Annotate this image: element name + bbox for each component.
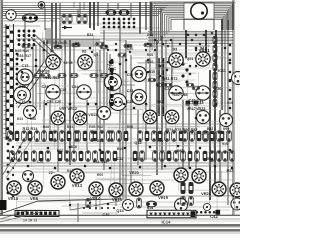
wire board-edge	[0, 215, 240, 233]
svg-text:R33: R33	[17, 117, 23, 121]
wire top-edge	[0, 2, 236, 4]
svg-text:R45 R10: R45 R10	[15, 49, 29, 53]
wire mesh	[8, 33, 230, 210]
svg-text:VR20: VR20	[129, 171, 139, 175]
svg-text:C26: C26	[127, 100, 134, 104]
resistor R2	[62, 15, 66, 24]
capacitor C5 cluster	[103, 10, 136, 29]
svg-text:VR24: VR24	[201, 191, 212, 196]
svg-text:R80 C48: R80 C48	[172, 93, 187, 97]
svg-text:R58: R58	[127, 125, 133, 129]
hole H1	[191, 3, 207, 19]
trimmer VR2	[78, 55, 92, 69]
trimmer VR25	[230, 183, 244, 197]
svg-text:94 98: 94 98	[63, 61, 72, 65]
svg-text:R40 R42: R40 R42	[89, 125, 103, 129]
svg-text:R56: R56	[57, 149, 64, 153]
capacitor C43	[137, 198, 142, 208]
svg-text:914: 914	[147, 206, 154, 210]
svg-text:C35: C35	[137, 157, 143, 161]
capacitor C21	[46, 85, 60, 99]
svg-text:C19: C19	[19, 100, 26, 104]
wire inner-box	[184, 19, 214, 30]
label microtext	[11, 33, 233, 161]
connector J2	[15, 211, 59, 217]
trimmer VR15	[109, 183, 123, 197]
transistor Q13	[23, 171, 34, 182]
svg-text:R19: R19	[117, 147, 124, 151]
label noise	[17, 41, 229, 177]
trimmer VR4	[196, 52, 210, 66]
svg-text:22··: 22··	[49, 171, 56, 175]
node dark-pads-r	[181, 62, 188, 83]
resistor bank right-column	[213, 36, 231, 109]
svg-text:R31: R31	[67, 125, 73, 129]
svg-text:VR21: VR21	[199, 48, 211, 53]
svg-text:Q14: Q14	[116, 209, 124, 213]
svg-text:R16 R17: R16 R17	[17, 54, 31, 58]
wire diag5	[0, 199, 120, 214]
svg-text:Q15: Q15	[147, 60, 154, 64]
svg-text:C25: C25	[55, 100, 62, 104]
svg-text:92: 92	[82, 48, 87, 53]
wire top-bundle	[2, 6, 168, 29]
wire vertical-bundles	[25, 0, 233, 215]
wire top-drops	[25, 2, 161, 52]
node A	[38, 2, 45, 9]
svg-text:R40: R40	[30, 117, 37, 121]
svg-text:R12 R14: R12 R14	[22, 127, 38, 131]
trimmer VR19	[174, 168, 188, 182]
capacitor C49 pads	[186, 101, 199, 106]
svg-text:C36: C36	[215, 87, 222, 91]
capacitor C2	[23, 14, 38, 22]
svg-text:C30: C30	[127, 47, 133, 51]
wire diag4	[31, 37, 59, 63]
svg-text:R21: R21	[87, 33, 94, 37]
resistor R8	[83, 15, 87, 24]
transistor Q11	[98, 107, 111, 120]
svg-text:R60: R60	[157, 139, 164, 143]
trimmer VR24	[212, 182, 226, 196]
capacitor C10	[110, 94, 127, 111]
svg-text:C28: C28	[37, 160, 43, 164]
trimmer VR8	[28, 181, 42, 195]
svg-text:R21 R25: R21 R25	[53, 41, 67, 45]
wire right-horizontals	[148, 32, 233, 44]
resistor bank top-mid	[22, 43, 152, 49]
trimmer VR14	[89, 182, 103, 196]
svg-text:R64 R66: R64 R66	[93, 160, 107, 164]
trimmer VR10	[7, 181, 21, 195]
svg-text:915: 915	[149, 70, 155, 74]
trimmer VR13	[70, 169, 84, 183]
svg-text:R82: R82	[177, 149, 184, 153]
svg-text:C32: C32	[117, 157, 124, 161]
node pad-column	[16, 53, 19, 101]
svg-text:R23: R23	[227, 169, 234, 173]
svg-text:R46 R52: R46 R52	[44, 76, 59, 80]
wire fine-verticals	[20, 36, 232, 200]
connector J1	[4, 24, 14, 140]
svg-text:R28: R28	[43, 125, 49, 129]
svg-text:VR8: VR8	[30, 196, 39, 201]
trimmer VR6	[51, 175, 65, 189]
svg-text:91: 91	[50, 48, 55, 53]
svg-text:C30: C30	[147, 33, 154, 37]
resistor bank R46-R52	[34, 74, 108, 78]
wire dark-pair-1	[159, 58, 164, 116]
wire fine-horizontals	[16, 45, 232, 174]
svg-text:C24: C24	[42, 85, 50, 89]
capacitor C33	[132, 90, 147, 105]
svg-text:VR19: VR19	[158, 195, 169, 200]
capacitor C22	[77, 85, 91, 99]
svg-text:R88: R88	[207, 157, 214, 161]
capacitor C26	[196, 86, 210, 100]
svg-text:VR13: VR13	[72, 183, 83, 188]
capacitor C16	[14, 87, 31, 104]
capacitor C9	[105, 74, 122, 91]
wire left-edge	[1, 0, 2, 215]
svg-text:IC11: IC11	[218, 69, 226, 73]
wire diag3	[34, 34, 62, 60]
svg-text:VR14: VR14	[90, 196, 101, 201]
svg-text:Q51 R72: Q51 R72	[162, 77, 177, 81]
wire guard-rings	[150, 2, 234, 52]
capacitor C44	[147, 201, 157, 207]
capacitor C31	[132, 67, 147, 82]
svg-text:C15: C15	[22, 64, 29, 68]
wire diag6	[0, 210, 30, 219]
wire diag2	[18, 40, 47, 108]
trimmer VR22	[165, 110, 179, 124]
svg-text:R10: R10	[43, 41, 50, 45]
svg-text:93: 93	[173, 46, 178, 51]
svg-text:R68: R68	[157, 100, 164, 104]
node pad-column-mid	[110, 60, 114, 106]
transistor Q20	[231, 198, 243, 210]
ic IC14	[147, 210, 196, 218]
svg-text:C37: C37	[165, 87, 172, 91]
resistor R4	[68, 15, 72, 24]
transistor Q21	[123, 200, 134, 211]
pad P1	[0, 200, 7, 210]
svg-text:Q21: Q21	[187, 57, 194, 61]
diode D1	[62, 26, 72, 30]
wire corner-bundle	[46, 28, 100, 46]
svg-text:919: 919	[222, 142, 228, 146]
resistor bank row2	[10, 151, 235, 162]
wire sparse-fills	[0, 2, 210, 222]
trimmer VR23	[192, 169, 206, 183]
svg-text:R90: R90	[223, 127, 229, 131]
capacitor C47	[203, 203, 210, 210]
svg-text:VR10: VR10	[8, 196, 19, 201]
wire thick-verticals	[186, 19, 222, 110]
node pad-grid	[18, 30, 36, 46]
transistor Q19	[232, 72, 245, 85]
svg-text:R74 R78 R80 R82: R74 R78 R80 R82	[166, 128, 197, 132]
wire diag1	[16, 40, 44, 104]
capacitor C15	[17, 69, 33, 85]
trimmer VR17	[143, 110, 157, 124]
svg-text:VR7 VR12: VR7 VR12	[59, 107, 77, 111]
svg-text:816: 816	[71, 145, 77, 149]
trimmer VR16	[129, 182, 143, 196]
svg-text:R44: R44	[97, 139, 104, 143]
svg-text:R7 VR12: R7 VR12	[83, 113, 98, 117]
svg-text:R30: R30	[11, 157, 18, 161]
wire diag8	[6, 136, 34, 178]
svg-text:C38 C43: C38 C43	[188, 101, 203, 105]
resistor bank row1	[8, 131, 232, 142]
resistor bank R72-R80	[148, 78, 200, 90]
svg-text:R50: R50	[97, 173, 103, 177]
wire hole-box	[184, 3, 214, 19]
svg-text:+CC: +CC	[106, 63, 114, 67]
transistor Q12	[24, 106, 37, 119]
transistor Q18	[220, 114, 233, 127]
trimmer VR12	[73, 111, 87, 125]
trimmer VR18	[150, 181, 164, 195]
capacitor C46 pads	[181, 182, 194, 206]
svg-text:C31: C31	[127, 73, 134, 77]
resistor R6	[77, 15, 81, 24]
svg-text:C24: C24	[72, 85, 79, 89]
trimmer VR7	[51, 111, 65, 125]
connector J1 lower pads	[7, 143, 15, 198]
wire diag7	[2, 130, 30, 176]
wire right-margin	[234, 0, 236, 215]
transistor Q2	[6, 10, 16, 20]
svg-text:C33: C33	[127, 89, 134, 93]
svg-text:Q12: Q12	[134, 141, 141, 145]
wire horizontal-traces	[2, 33, 233, 207]
node hole-pads	[187, 32, 214, 37]
node pads scattered	[19, 43, 234, 170]
svg-text:Q6: Q6	[94, 53, 99, 57]
svg-text:R44: R44	[67, 169, 73, 173]
svg-text:R92: R92	[207, 127, 214, 131]
transistor Q14	[175, 199, 188, 212]
svg-text:IC14: IC14	[161, 219, 171, 224]
svg-text:919: 919	[227, 101, 233, 105]
svg-text:C18: C18	[19, 85, 26, 89]
svg-text:R60: R60	[147, 53, 153, 57]
transistor Q17	[197, 111, 210, 124]
svg-text:Q4 Q8: Q4 Q8	[38, 69, 49, 73]
node pad-row-br	[183, 210, 220, 215]
svg-text:C25: C25	[47, 100, 54, 104]
trimmer VR1	[46, 55, 60, 69]
svg-text:C18: C18	[60, 88, 67, 92]
capacitor C23	[169, 86, 183, 100]
trimmer VR3	[169, 53, 183, 67]
